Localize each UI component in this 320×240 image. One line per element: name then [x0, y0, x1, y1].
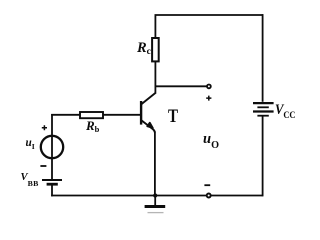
wire left vertical lower [51, 184, 53, 196]
wire top rail [155, 14, 264, 16]
output minus sign [204, 184, 210, 186]
wire emitter vertical [154, 132, 156, 196]
terminal output plus [207, 85, 211, 89]
wire bottom rail [51, 195, 263, 197]
wire right rail upper [262, 14, 264, 102]
source ui circle [41, 136, 63, 158]
battery VBB plate long [42, 179, 62, 181]
battery VCC plate 4 short [257, 115, 268, 117]
label VCC [275, 103, 295, 117]
wire collector vertical [154, 61, 156, 93]
transistor T base bar [140, 101, 142, 125]
battery VBB plate short thick [47, 183, 58, 186]
ground faint second bar [148, 212, 164, 214]
source plus sign [42, 125, 47, 130]
wire right rail lower [262, 116, 264, 197]
resistor Rc [152, 38, 159, 61]
label VBB [21, 173, 39, 184]
wire left top horizontal [51, 114, 140, 116]
wire Rc top lead [154, 15, 156, 38]
ground bar [145, 205, 166, 208]
wire left vertical upper [51, 114, 53, 180]
label uO [203, 132, 219, 147]
ground stub [154, 196, 156, 206]
wire output branch [155, 85, 206, 87]
terminal output minus [207, 194, 211, 198]
label ui [26, 138, 35, 149]
transistor T emitter arrow [147, 123, 153, 128]
label T [168, 107, 178, 126]
label Rc [137, 41, 151, 56]
transistor T emitter lead [141, 120, 155, 132]
transistor T collector lead [141, 93, 156, 105]
battery VCC plate 2 short [257, 106, 268, 108]
source minus sign [40, 165, 46, 167]
resistor Rb [80, 112, 103, 118]
battery VCC plate 3 long [253, 110, 274, 112]
junction dot [153, 193, 157, 197]
label Rb [86, 119, 99, 132]
output plus sign [206, 96, 211, 101]
battery VCC plate 1 long [253, 102, 274, 104]
